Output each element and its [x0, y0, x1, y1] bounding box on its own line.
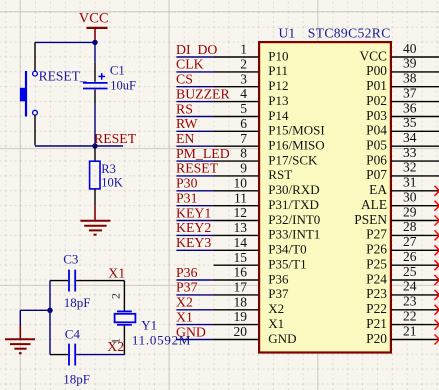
- svg-text:P23: P23: [366, 286, 387, 301]
- svg-text:VCC: VCC: [79, 11, 109, 27]
- svg-text:GND: GND: [268, 331, 296, 346]
- pin 5 row: [176, 101, 289, 123]
- svg-text:GND: GND: [176, 324, 206, 339]
- junction ground branch: [47, 308, 52, 313]
- ground left of crystal: [5, 326, 35, 354]
- svg-text:30: 30: [403, 190, 417, 205]
- svg-text:20: 20: [234, 324, 248, 339]
- resistor R3 10K: [90, 146, 123, 205]
- svg-text:CLK: CLK: [176, 57, 204, 72]
- svg-text:P31/TXD: P31/TXD: [268, 197, 319, 212]
- svg-text:P35/T1: P35/T1: [268, 257, 306, 272]
- crystal Y1 11.0592M: [115, 311, 192, 347]
- svg-text:5: 5: [240, 101, 247, 116]
- svg-text:35: 35: [403, 115, 417, 130]
- pin 17 row: [176, 280, 289, 302]
- svg-text:12: 12: [234, 205, 248, 220]
- pin 4 row: [176, 86, 289, 108]
- wire RESET horizontal: [35, 145, 123, 147]
- svg-text:RST: RST: [268, 167, 292, 182]
- svg-text:39: 39: [403, 56, 417, 71]
- svg-text:10K: 10K: [101, 176, 123, 190]
- pin 18 row: [176, 294, 284, 316]
- svg-text:BUZZER: BUZZER: [176, 86, 230, 101]
- svg-text:40: 40: [403, 41, 417, 56]
- pin 1 row: [176, 42, 289, 64]
- svg-text:16: 16: [234, 265, 248, 280]
- svg-text:P27: P27: [366, 227, 387, 242]
- pin 2 row: [176, 57, 288, 79]
- svg-text:KEY2: KEY2: [176, 220, 211, 235]
- pin 12 row: [176, 205, 320, 227]
- svg-text:U1: U1: [279, 25, 296, 40]
- svg-text:EA: EA: [369, 182, 387, 197]
- pin 37 row: [366, 85, 439, 108]
- pin 27 row: [366, 234, 439, 257]
- pin 10 row: [176, 175, 320, 197]
- svg-text:CS: CS: [176, 72, 193, 87]
- svg-text:P04: P04: [366, 123, 387, 138]
- junction VCC node: [92, 40, 97, 45]
- svg-text:X2: X2: [107, 339, 124, 354]
- capacitor C1 10uF polarized: [83, 63, 136, 103]
- svg-text:8: 8: [240, 146, 247, 161]
- svg-text:P02: P02: [366, 93, 387, 108]
- svg-text:P05: P05: [366, 138, 387, 153]
- svg-text:P07: P07: [366, 167, 387, 182]
- wire crystal bottom pin: [123, 325, 125, 355]
- svg-text:P37: P37: [176, 280, 198, 295]
- pin 11 row: [176, 190, 319, 212]
- svg-text:P15/MOSI: P15/MOSI: [268, 123, 324, 138]
- svg-text:36: 36: [403, 100, 417, 115]
- svg-text:P24: P24: [366, 271, 387, 286]
- svg-text:P32/INT0: P32/INT0: [268, 212, 320, 227]
- svg-text:11: 11: [234, 190, 247, 205]
- svg-text:X2: X2: [268, 301, 284, 316]
- svg-text:4: 4: [240, 86, 247, 101]
- power VCC: [79, 11, 109, 43]
- pin 34 row: [366, 130, 439, 153]
- svg-text:P21: P21: [366, 316, 387, 331]
- svg-text:STC89C52RC: STC89C52RC: [308, 25, 391, 40]
- svg-text:KEY3: KEY3: [176, 235, 211, 250]
- pin 39 row: [366, 56, 439, 79]
- op IC U1 STC89C52RC body: [259, 42, 391, 352]
- svg-text:P10: P10: [268, 48, 288, 63]
- wire VCC down to C1: [94, 42, 96, 62]
- svg-text:3: 3: [240, 71, 247, 86]
- svg-text:X1: X1: [176, 309, 193, 324]
- svg-text:34: 34: [403, 130, 417, 145]
- svg-text:P03: P03: [366, 108, 387, 123]
- svg-text:P13: P13: [268, 93, 288, 108]
- svg-text:C1: C1: [110, 64, 125, 78]
- svg-text:24: 24: [403, 279, 417, 294]
- svg-text:X2: X2: [176, 295, 193, 310]
- svg-text:X1: X1: [108, 265, 125, 280]
- pin 7 row: [176, 131, 325, 153]
- svg-text:Y1: Y1: [141, 318, 157, 333]
- svg-text:7: 7: [240, 131, 247, 146]
- svg-text:10: 10: [234, 175, 248, 190]
- svg-text:38: 38: [403, 71, 417, 86]
- pin 38 row: [366, 71, 439, 94]
- svg-text:P26: P26: [366, 242, 387, 257]
- wire to left ground: [20, 309, 50, 311]
- pin 29 row: [354, 204, 439, 227]
- svg-text:9: 9: [240, 161, 247, 176]
- pin 35 row: [366, 115, 439, 138]
- svg-text:13: 13: [234, 220, 248, 235]
- svg-text:P16/MISO: P16/MISO: [268, 138, 324, 153]
- pin 31 row: [369, 175, 439, 198]
- svg-text:DI DO: DI DO: [176, 42, 217, 57]
- svg-text:P34/T0: P34/T0: [268, 242, 306, 257]
- pin 26 row: [366, 249, 439, 272]
- wire left vertical C3-C4: [49, 281, 51, 355]
- svg-text:27: 27: [403, 234, 417, 249]
- pin 6 row: [176, 116, 325, 138]
- pin 23 row: [366, 294, 439, 317]
- svg-text:P22: P22: [366, 301, 387, 316]
- ground below R3: [80, 205, 110, 234]
- wire crystal top pin: [123, 281, 125, 312]
- svg-text:VCC: VCC: [359, 48, 387, 63]
- capacitor C4 18pF: [50, 326, 125, 386]
- pin 9 row: [176, 161, 292, 183]
- svg-text:6: 6: [240, 116, 247, 131]
- svg-text:P25: P25: [366, 257, 387, 272]
- wire C1 down to RESET node: [94, 103, 96, 146]
- svg-text:RESET_: RESET_: [39, 69, 87, 84]
- svg-text:P14: P14: [268, 108, 289, 123]
- pin 8 row: [176, 146, 318, 168]
- svg-text:32: 32: [403, 160, 417, 175]
- svg-text:19: 19: [234, 309, 248, 324]
- svg-text:P36: P36: [176, 265, 198, 280]
- svg-text:2: 2: [240, 57, 247, 72]
- svg-text:22: 22: [403, 308, 417, 323]
- pin 24 row: [366, 279, 439, 302]
- svg-text:18: 18: [234, 294, 248, 309]
- junction RESET node: [92, 143, 97, 148]
- switch S1 RESET pushbutton: [20, 42, 87, 145]
- svg-text:P01: P01: [366, 78, 387, 93]
- pin 28 row: [366, 219, 439, 242]
- pin 16 row: [176, 265, 289, 287]
- svg-text:26: 26: [403, 249, 417, 264]
- svg-text:23: 23: [403, 294, 417, 309]
- svg-text:RW: RW: [176, 116, 197, 131]
- pin 21 row: [366, 323, 439, 346]
- svg-text:EN: EN: [176, 131, 194, 146]
- svg-text:PSEN: PSEN: [354, 212, 387, 227]
- svg-text:15: 15: [234, 250, 248, 265]
- pin 14 row: [176, 235, 307, 257]
- svg-text:31: 31: [403, 175, 417, 190]
- capacitor C3 18pF: [50, 251, 124, 310]
- pin 30 row: [361, 190, 439, 213]
- svg-text:C4: C4: [65, 326, 81, 341]
- svg-text:P33/INT1: P33/INT1: [268, 227, 320, 242]
- svg-text:P17/SCK: P17/SCK: [268, 152, 318, 167]
- pin 33 row: [366, 145, 439, 168]
- svg-text:RESET: RESET: [176, 161, 219, 176]
- pin 19 row: [176, 309, 284, 331]
- svg-text:P00: P00: [366, 63, 387, 78]
- svg-text:X1: X1: [268, 316, 284, 331]
- svg-text:PM_LED: PM_LED: [176, 146, 230, 161]
- svg-text:33: 33: [403, 145, 417, 160]
- svg-text:29: 29: [403, 204, 417, 219]
- svg-text:37: 37: [403, 85, 417, 100]
- pin 3 row: [176, 71, 289, 93]
- pin 20 row: [176, 324, 296, 346]
- pin 22 row: [366, 308, 439, 331]
- svg-text:1: 1: [240, 42, 247, 57]
- pin 32 row: [366, 160, 439, 183]
- svg-text:RS: RS: [176, 101, 193, 116]
- svg-text:18pF: 18pF: [63, 371, 90, 386]
- pin 13 row: [176, 220, 320, 242]
- svg-text:P31: P31: [176, 191, 198, 206]
- svg-text:2: 2: [109, 293, 123, 299]
- svg-text:R3: R3: [101, 162, 116, 176]
- svg-text:21: 21: [403, 323, 417, 338]
- svg-text:28: 28: [403, 219, 417, 234]
- svg-text:P12: P12: [268, 78, 288, 93]
- pin 40 row: [359, 41, 439, 64]
- svg-text:ALE: ALE: [361, 197, 387, 212]
- svg-text:P20: P20: [366, 331, 387, 346]
- svg-text:P30: P30: [176, 176, 198, 191]
- svg-text:KEY1: KEY1: [176, 205, 211, 220]
- svg-text:18pF: 18pF: [64, 295, 91, 310]
- svg-text:10uF: 10uF: [110, 79, 136, 93]
- pin 15 row: [214, 250, 307, 272]
- svg-text:RESET: RESET: [94, 131, 137, 146]
- svg-text:P37: P37: [268, 286, 289, 301]
- wire VCC horizontal to switch: [35, 41, 95, 43]
- pin 25 row: [366, 264, 439, 287]
- svg-text:P11: P11: [268, 63, 288, 78]
- pin 36 row: [366, 100, 439, 123]
- svg-text:C3: C3: [63, 251, 78, 266]
- svg-text:P36: P36: [268, 271, 289, 286]
- svg-text:14: 14: [234, 235, 248, 250]
- svg-text:P30/RXD: P30/RXD: [268, 182, 319, 197]
- svg-text:25: 25: [403, 264, 417, 279]
- svg-text:17: 17: [234, 280, 248, 295]
- svg-text:P06: P06: [366, 152, 387, 167]
